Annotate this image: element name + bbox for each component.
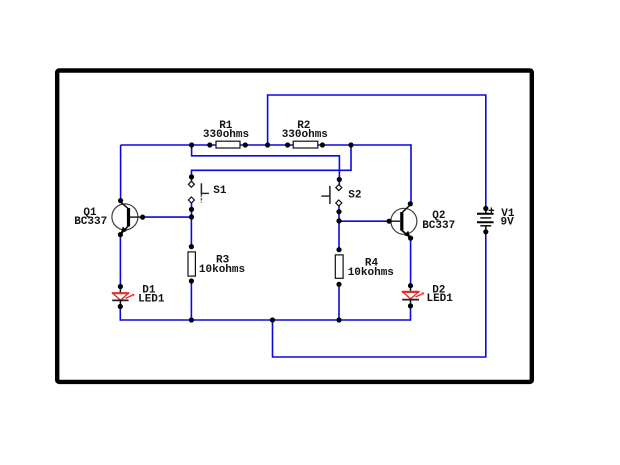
svg-text:10kohms: 10kohms: [199, 264, 245, 276]
border frame: [57, 71, 532, 382]
wire R4 to ground rail: [338, 284, 340, 320]
node dots battery terminals: [483, 206, 488, 235]
node dots S2: [336, 177, 342, 224]
node dots Q2: [387, 201, 414, 241]
node dots bottom rail: [189, 317, 342, 322]
wire battery positive feed: [268, 95, 486, 209]
wire D2 to bottom rail: [410, 306, 412, 321]
wire D1 to bottom rail: [119, 307, 121, 321]
wire S2 lower contact to base node: [338, 203, 340, 221]
wire cross-coupling node A to S2: [192, 145, 340, 180]
wire collector riser Q1: [120, 145, 122, 201]
LED D1: [112, 285, 165, 307]
wire Q2 emitter to D2: [410, 238, 412, 286]
switch S2: [321, 186, 361, 204]
LED D2: [402, 284, 453, 306]
wire Q1 emitter to D1: [119, 235, 121, 287]
svg-text:9V: 9V: [500, 216, 514, 228]
svg-text:BC337: BC337: [422, 220, 455, 232]
svg-text:LED1: LED1: [138, 294, 165, 306]
svg-text:S1: S1: [213, 185, 227, 197]
svg-text:LED1: LED1: [426, 293, 453, 305]
switch S2 contacts: [336, 185, 342, 206]
wire S2 node to R4: [338, 221, 340, 250]
wire collector drop Q2: [410, 144, 412, 204]
wire Q1 base link: [143, 216, 192, 218]
svg-text:330ohms: 330ohms: [203, 129, 249, 141]
svg-text:S2: S2: [348, 190, 361, 202]
resistor R4: [335, 255, 394, 279]
wire S1 upper contact stub: [191, 177, 193, 184]
resistor R2: [282, 120, 328, 148]
wire bottom rail: [120, 319, 410, 321]
wire Q2 base link: [339, 220, 389, 222]
resistor R3: [188, 252, 245, 276]
switch S1 contacts: [188, 181, 194, 203]
resistor R1: [203, 120, 249, 148]
switch S1: [201, 183, 226, 202]
wire top rail (R1/R2 row): [121, 144, 411, 146]
wire S2 upper contact stub: [338, 180, 340, 188]
svg-text:330ohms: 330ohms: [282, 129, 328, 141]
battery V1: [477, 208, 515, 232]
svg-text:BC337: BC337: [74, 216, 107, 228]
wire S1 lower contact to base node: [191, 200, 193, 217]
transistor Q2: [389, 205, 455, 238]
wire R3 to ground rail: [190, 281, 192, 320]
wire S1 node to R3: [190, 217, 192, 247]
node dots R4 terminals: [336, 247, 341, 287]
node dots S1: [189, 174, 194, 219]
node dots D1 terminals: [118, 284, 123, 309]
node dots R3 terminals: [189, 244, 194, 284]
transistor Q1: [74, 202, 142, 234]
node dots D2 terminals: [408, 283, 413, 308]
node junction dots top rail: [189, 142, 354, 147]
node dots Q1: [118, 198, 145, 237]
svg-text:10kohms: 10kohms: [348, 267, 394, 279]
wire cross-coupling node B to S1: [192, 145, 352, 177]
wire battery negative return: [273, 232, 486, 357]
